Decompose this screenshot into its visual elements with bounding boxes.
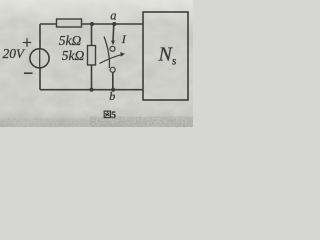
svg-text:a: a bbox=[110, 9, 116, 23]
svg-text:5kΩ: 5kΩ bbox=[59, 33, 82, 48]
svg-text:b: b bbox=[109, 89, 115, 103]
svg-text:5: 5 bbox=[111, 111, 116, 121]
svg-text:5kΩ: 5kΩ bbox=[62, 48, 85, 63]
svg-text:20V: 20V bbox=[3, 46, 27, 61]
